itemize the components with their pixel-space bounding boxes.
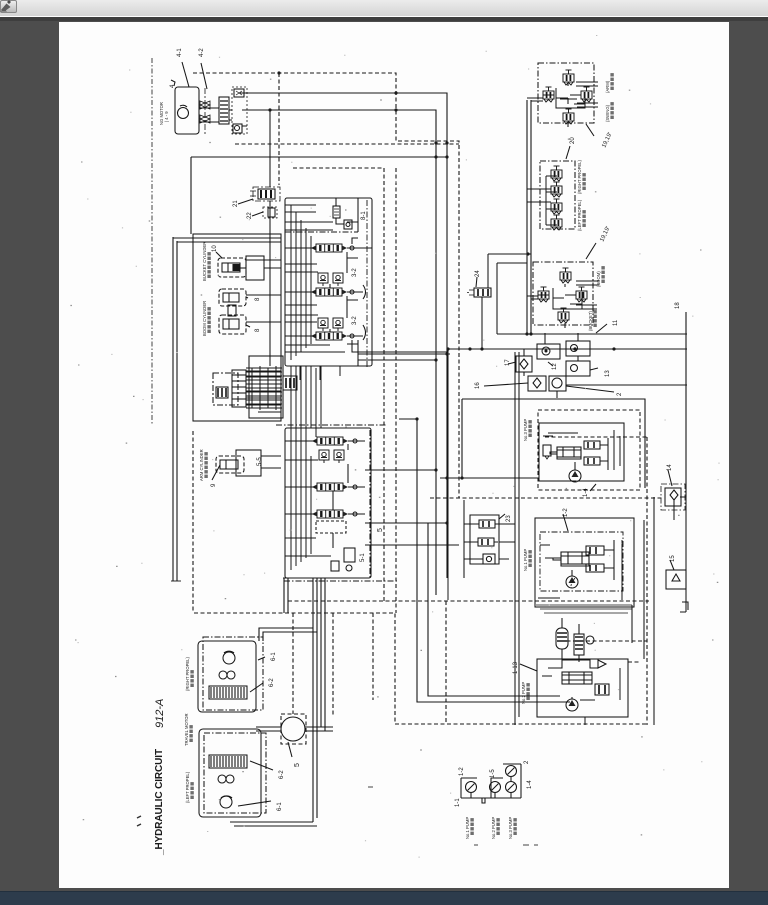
svg-text:4: 4 [170, 84, 176, 88]
svg-text:6-2: 6-2 [279, 770, 285, 779]
svg-text:1-4: 1-4 [527, 780, 533, 789]
svg-text:5: 5 [377, 528, 384, 532]
svg-text:5: 5 [294, 763, 301, 767]
svg-text:BOOM CYLINDER: BOOM CYLINDER [202, 301, 207, 336]
svg-text:2: 2 [617, 392, 623, 396]
svg-text:8: 8 [255, 328, 261, 332]
svg-text:14: 14 [667, 464, 673, 471]
svg-text:18: 18 [675, 302, 681, 309]
svg-text:21: 21 [233, 200, 239, 207]
svg-text:No.1 PUMP: No.1 PUMP [465, 817, 470, 839]
svg-text:No.1 PUMP: No.1 PUMP [523, 549, 528, 571]
svg-text:1-2: 1-2 [459, 767, 465, 776]
svg-text:(RIGHT PROPEL): (RIGHT PROPEL) [577, 160, 582, 194]
svg-text:1-4: 1-4 [583, 488, 589, 497]
svg-text:| 4 - 9: | 4 - 9 [164, 111, 169, 122]
svg-text:2: 2 [524, 760, 530, 764]
svg-text:11: 11 [613, 319, 619, 326]
svg-text:5-1: 5-1 [360, 553, 366, 562]
svg-text:No.3 PUMP: No.3 PUMP [523, 419, 528, 441]
svg-text:TRAVEL MOTOR: TRAVEL MOTOR [184, 714, 189, 747]
svg-text:_HYDRAULIC CIRCUIT: _HYDRAULIC CIRCUIT [154, 749, 165, 856]
svg-text:20: 20 [570, 137, 576, 144]
svg-text:8-1: 8-1 [361, 211, 367, 220]
svg-text:16: 16 [475, 382, 481, 389]
svg-text:3-2: 3-2 [352, 268, 358, 277]
svg-text:1-13: 1-13 [513, 661, 519, 674]
svg-text:(LEFT PROPEL): (LEFT PROPEL) [185, 771, 190, 803]
svg-text:No.2 PUMP: No.2 PUMP [491, 817, 496, 839]
svg-text:10: 10 [212, 245, 218, 252]
svg-text:8: 8 [255, 297, 261, 301]
svg-text:3-2: 3-2 [352, 316, 358, 325]
svg-text:(SWING): (SWING) [605, 104, 610, 122]
svg-text:1-2: 1-2 [563, 508, 569, 517]
svg-text:17: 17 [505, 359, 511, 366]
svg-text:1-5: 1-5 [490, 769, 496, 778]
svg-text:No.2 PUMP: No.2 PUMP [521, 682, 526, 704]
svg-text:4-2: 4-2 [199, 48, 205, 57]
svg-text:(ARM): (ARM) [605, 80, 610, 93]
svg-text:(RIGHT PROPEL): (RIGHT PROPEL) [185, 657, 190, 691]
svg-text:(LEFT PROPEL): (LEFT PROPEL) [577, 199, 582, 231]
svg-text:23: 23 [506, 515, 512, 522]
svg-text:15: 15 [670, 555, 676, 562]
svg-text:13: 13 [605, 370, 611, 377]
svg-text:1-1: 1-1 [455, 798, 461, 807]
svg-text:4-1: 4-1 [177, 48, 183, 57]
svg-text:912-A: 912-A [154, 699, 166, 728]
svg-text:24: 24 [475, 270, 481, 277]
svg-text:9: 9 [211, 483, 217, 487]
svg-text:ARM CYLINDER: ARM CYLINDER [199, 449, 204, 481]
svg-text:22: 22 [247, 212, 253, 219]
svg-text:6-1: 6-1 [277, 802, 283, 811]
svg-text:19,19': 19,19' [599, 226, 611, 243]
svg-text:19,19': 19,19' [601, 132, 613, 149]
svg-text:(BUCKET): (BUCKET) [588, 311, 593, 331]
svg-text:5-5: 5-5 [257, 457, 263, 466]
svg-text:6-1: 6-1 [271, 652, 277, 661]
svg-text:No.3 PUMP: No.3 PUMP [508, 817, 513, 839]
svg-text:6-2: 6-2 [269, 678, 275, 687]
svg-text:12: 12 [552, 363, 558, 370]
svg-text:BUCKET CYLINDER: BUCKET CYLINDER [202, 242, 207, 281]
